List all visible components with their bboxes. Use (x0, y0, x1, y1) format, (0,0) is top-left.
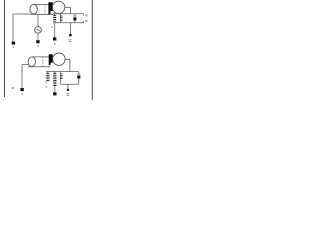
label dot left of T4 (12, 87, 14, 89)
AC source G1 (35, 27, 42, 34)
wire top-left L to lamp L1 (13, 14, 30, 42)
photocell circle C1 (52, 1, 64, 13)
label = under stub (69, 38, 72, 41)
photocell circle C2 (53, 53, 65, 65)
stub to ground dot from bottom rail (69, 23, 71, 34)
terminal square T2 (53, 37, 56, 40)
box right edge lower (78, 79, 80, 85)
label dot under T1 (13, 46, 15, 47)
~ inside G1 (36, 30, 39, 31)
label dot under T4 (21, 93, 23, 94)
wire left L to lamp L2 (22, 64, 29, 66)
output wire from C1 (65, 8, 71, 14)
terminal square T1 (12, 42, 15, 45)
battery R1 stripes (53, 14, 56, 22)
lens ellipse E2 (28, 57, 35, 67)
dashed aperture line (bottom) (42, 57, 44, 67)
rail end ticks (83, 14, 85, 16)
label dot under T3 (37, 45, 39, 46)
lamp cylinder body (bottom block) (32, 56, 49, 58)
output wire from C2 (65, 60, 70, 72)
black slit bar B1 (48, 2, 52, 14)
right border wire (91, 0, 93, 100)
bottom top rail (46, 71, 79, 73)
wire R4 to terminal T5 (54, 86, 56, 92)
stub to dot from box bottom (67, 84, 69, 89)
dashed aperture line (44, 4, 46, 14)
top rail (53, 13, 84, 15)
label specks near R3 (45, 82, 46, 83)
left border wire (4, 0, 6, 97)
AC source feed wire (37, 14, 39, 26)
terminal square T5 (53, 92, 56, 95)
wire R1 to terminal T2 (54, 23, 56, 38)
box right edge upper (78, 72, 80, 74)
label dot left of wire (51, 27, 52, 28)
box bottom rail (60, 83, 79, 85)
box left edge with hatching (element R2) (59, 14, 61, 23)
terminal square T3 (36, 40, 39, 43)
right terminal label specks (85, 14, 87, 16)
box (bottom block) left edge with hatching (59, 72, 61, 85)
stub end dot (69, 34, 72, 37)
capacitor C4 on right edge (77, 73, 80, 75)
black slit bar B2 (49, 54, 53, 65)
terminal square T4 (20, 88, 23, 91)
lens ellipse E1 (30, 5, 37, 15)
label = under stub (66, 92, 69, 95)
bottom rail (53, 22, 84, 24)
wire G1 to T3 (37, 33, 39, 40)
lamp cylinder body (top block) (34, 3, 49, 5)
battery R4 stripes (tall) (53, 72, 56, 86)
battery R3 stripes (46, 72, 49, 81)
capacitor C3 (in top box) (74, 14, 76, 16)
label dot under T2 (54, 43, 56, 44)
stub end dot (67, 89, 69, 91)
